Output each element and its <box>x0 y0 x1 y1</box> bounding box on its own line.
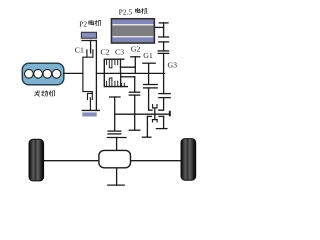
svg-text:P2.5: P2.5 <box>119 7 133 16</box>
svg-text:G3: G3 <box>168 61 178 70</box>
svg-text:G1: G1 <box>143 51 153 60</box>
svg-text:P2: P2 <box>79 19 87 28</box>
svg-text:C3: C3 <box>115 47 124 56</box>
svg-text:C2: C2 <box>101 47 110 56</box>
svg-text:G2: G2 <box>131 45 141 54</box>
svg-text:C1: C1 <box>75 46 84 55</box>
